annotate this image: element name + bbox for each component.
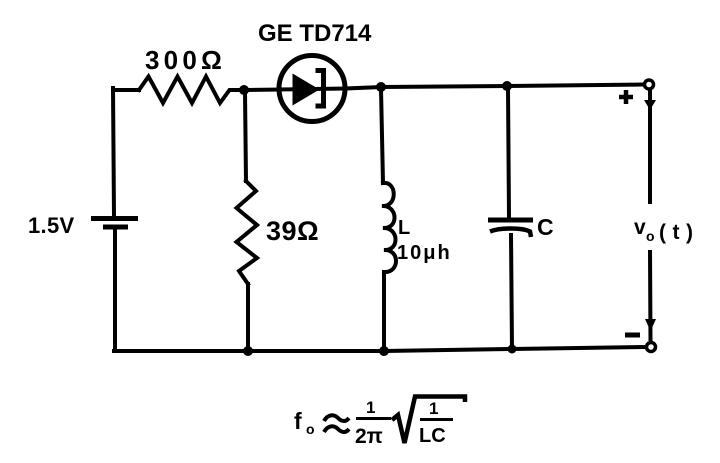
wire 39 ohm branch bottom: [246, 284, 250, 350]
svg-text:LC: LC: [419, 425, 446, 447]
svg-text:2π: 2π: [355, 425, 383, 448]
svg-text:39Ω: 39Ω: [266, 216, 319, 246]
minus sign: [625, 333, 640, 338]
formula fo approx 1/2pi sqrt(1/LC): [294, 397, 465, 449]
junction node A: [239, 85, 249, 95]
wire inductor branch top: [381, 89, 383, 183]
inductor L1: [382, 183, 396, 272]
junction node B: [376, 82, 386, 92]
capacitor C1 top plate: [488, 218, 533, 223]
label vo(t): [634, 216, 699, 244]
wire node A to diode: [246, 88, 280, 93]
battery B1 long plate: [91, 216, 138, 221]
resistor R1 300 ohm: [139, 77, 246, 104]
wire diode to node B: [345, 87, 381, 89]
wire capacitor branch bottom: [511, 235, 512, 348]
wire capacitor branch top: [508, 88, 509, 218]
wire 39 ohm branch top: [245, 92, 246, 181]
svg-text:o: o: [306, 421, 315, 437]
wire left vertical upper: [113, 88, 114, 216]
tunnel diode U1 circle: [279, 56, 345, 122]
svg-text:o: o: [646, 228, 655, 244]
svg-text:1: 1: [429, 399, 438, 418]
capacitor C1 bottom plate: [490, 229, 531, 238]
wire node B to node C: [381, 86, 507, 87]
plus sign: [619, 90, 633, 104]
junction node E: [379, 346, 389, 356]
svg-text:C: C: [537, 214, 554, 240]
svg-text:GE TD714: GE TD714: [258, 20, 372, 47]
svg-text:300Ω: 300Ω: [145, 45, 226, 75]
svg-text:v: v: [634, 216, 646, 239]
wire through diode: [280, 89, 345, 90]
wire inductor branch bottom: [382, 272, 386, 350]
svg-text:1.5V: 1.5V: [28, 213, 74, 238]
junction node F: [508, 345, 517, 354]
wire node C to + terminal: [507, 85, 643, 87]
svg-text:1: 1: [366, 398, 375, 417]
terminal - output: [647, 343, 656, 352]
wire top-left horizontal: [113, 88, 139, 92]
battery B1 short plate: [103, 225, 128, 230]
arrow upper segment: [648, 90, 652, 204]
svg-text:(t): (t): [659, 221, 699, 244]
svg-text:f: f: [294, 408, 302, 434]
terminal + output: [645, 80, 654, 89]
tunnel diode U1 anode triangle: [293, 74, 320, 106]
formula fraction bar: [356, 417, 391, 420]
arrowhead upper: [644, 100, 656, 110]
svg-text:L: L: [398, 217, 410, 239]
tunnel diode U1 cathode bracket: [316, 71, 324, 107]
formula radical: [392, 397, 465, 444]
resistor R2 39 ohm: [237, 181, 258, 284]
formula approx: [324, 415, 349, 421]
formula inner fraction bar: [420, 418, 453, 421]
wire bottom rail: [114, 347, 645, 351]
junction node C: [502, 81, 512, 91]
junction node D: [243, 346, 253, 356]
svg-text:10μh: 10μh: [397, 242, 452, 264]
arrowhead lower: [645, 319, 656, 331]
arrow lower segment: [648, 250, 653, 341]
wire left vertical lower: [113, 229, 117, 351]
